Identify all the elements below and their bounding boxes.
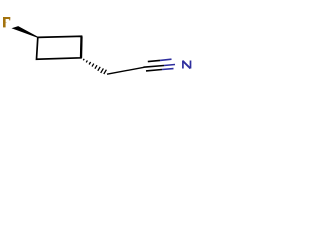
hash wedge bond C3-CH2	[83, 59, 106, 74]
triple bond C#N : middle line	[144, 66, 165, 68]
ring right edge (bolder)	[80, 36, 83, 58]
atom label F (fluorine)	[3, 17, 10, 27]
cyclobutane ring	[37, 36, 82, 59]
bond CH2-C(nitrile)	[107, 67, 144, 74]
triple bond C#N : top line	[148, 60, 160, 61]
atom label N (nitrogen)	[183, 61, 191, 69]
wedge bond C1-F	[12, 26, 39, 38]
triple bond C#N : bottom line	[146, 70, 162, 71]
